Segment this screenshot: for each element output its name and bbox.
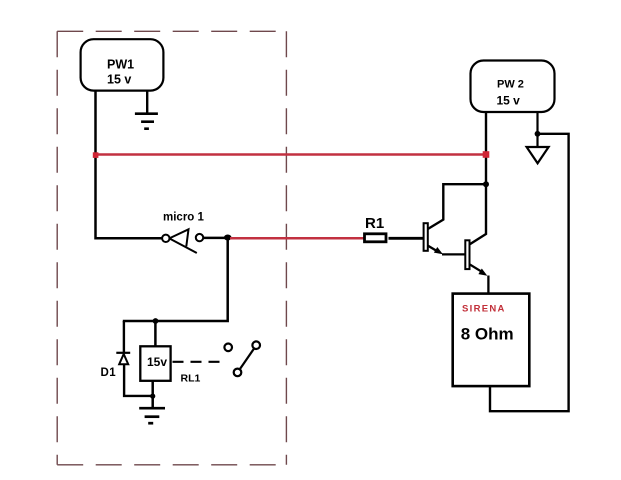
relay contact lever bbox=[240, 349, 254, 369]
junction dot relay bottom bbox=[150, 394, 155, 399]
svg-text:15 v: 15 v bbox=[107, 73, 131, 87]
svg-text:8 Ohm: 8 Ohm bbox=[461, 325, 514, 344]
speaker SIRENA box bbox=[453, 294, 530, 387]
junction dot relay top bbox=[153, 318, 159, 324]
svg-text:micro 1: micro 1 bbox=[163, 212, 205, 224]
svg-text:15 v: 15 v bbox=[497, 93, 521, 107]
junction node at micro switch output bbox=[224, 235, 232, 241]
wire relay coil bottom pin bbox=[151, 381, 154, 407]
svg-text:15v: 15v bbox=[147, 355, 167, 369]
junction dot collector rail bbox=[483, 181, 489, 187]
wire PW1 right pin to ground bbox=[146, 91, 148, 114]
micro switch lever triangle bbox=[170, 229, 189, 246]
svg-text:RL1: RL1 bbox=[181, 373, 201, 385]
wire Q1 emitter to Q2 base bbox=[442, 253, 465, 255]
transistor Q2 emitter wire with arrow bbox=[470, 264, 481, 271]
wire PW2 output to right rail bbox=[490, 134, 569, 411]
red node at PW1 rail bbox=[93, 152, 99, 158]
svg-text:SIRENA: SIRENA bbox=[462, 303, 506, 314]
junction dot PW2 output bbox=[535, 131, 541, 137]
diode D1 triangle bbox=[119, 354, 128, 364]
dashed link relay to contact bbox=[173, 361, 221, 363]
relay contact left terminal circle bbox=[224, 344, 232, 352]
svg-text:PW1: PW1 bbox=[107, 57, 134, 71]
wire Q2 emitter to SIRENA bbox=[487, 276, 489, 294]
diode D1 cathode bar bbox=[116, 352, 130, 354]
resistor R1 bbox=[365, 234, 387, 242]
wire micro junction down to relay rail bbox=[123, 238, 228, 321]
micro switch lever arm bbox=[170, 239, 197, 253]
relay RL1 coil box bbox=[140, 346, 170, 381]
wire R1 to Q1 base bbox=[389, 237, 424, 240]
ground below relay bbox=[139, 408, 165, 423]
relay contact common terminal circle bbox=[234, 369, 242, 377]
ground below PW1 bbox=[135, 114, 158, 129]
ground triangle symbol bbox=[527, 147, 549, 163]
micro switch left terminal circle bbox=[162, 235, 169, 242]
dashed enclosure border bbox=[57, 31, 286, 465]
power supply PW1 bbox=[81, 39, 164, 90]
transistor Q1 collector wire bbox=[428, 184, 486, 229]
wire relay coil top pin bbox=[154, 321, 157, 346]
red supply wire (top rail) bbox=[96, 153, 487, 156]
relay contact right terminal circle bbox=[252, 341, 260, 349]
wire PW2 right pin down bbox=[536, 112, 538, 147]
wire micro switch to junction bbox=[203, 237, 227, 240]
transistor Q1 emitter wire with arrow bbox=[428, 246, 438, 252]
diode D1 branch wire bottom bbox=[124, 364, 153, 396]
svg-text:R1: R1 bbox=[365, 215, 384, 232]
red wire junction to R1 bbox=[230, 237, 364, 240]
diode D1 branch wire top bbox=[123, 321, 125, 354]
transistor Q2 base bar bbox=[465, 240, 469, 269]
svg-text:D1: D1 bbox=[101, 367, 117, 379]
red node at PW2 rail bbox=[483, 151, 490, 158]
transistor Q2 collector wire from PW2 rail bbox=[470, 112, 486, 245]
svg-text:PW 2: PW 2 bbox=[497, 79, 524, 91]
power supply PW2 bbox=[471, 61, 555, 113]
wire PW1 left pin down to micro switch bbox=[96, 91, 163, 239]
micro switch right terminal circle bbox=[196, 234, 203, 241]
transistor Q1 base bar bbox=[424, 223, 428, 251]
